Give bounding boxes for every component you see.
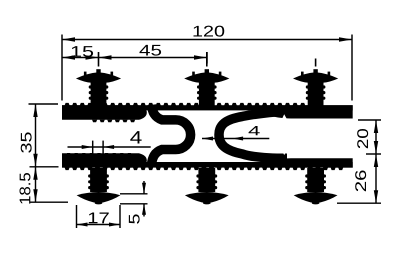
arrow 45 right <box>194 55 207 59</box>
label 4 left <box>130 131 141 143</box>
arrow 17 left <box>77 223 88 227</box>
label 26 <box>355 170 366 191</box>
ext tick bottom right <box>337 202 381 204</box>
dim 15/45 line <box>62 57 207 59</box>
dim 4 left line <box>68 146 151 148</box>
top-left flange block <box>62 105 147 120</box>
arrow 17 right <box>109 223 120 227</box>
arrow 4 left in <box>82 145 93 149</box>
arrow 26 down <box>374 190 378 203</box>
ext line left <box>61 35 63 101</box>
ext tick mid right <box>366 153 381 155</box>
bottom-left flange block <box>62 153 147 167</box>
dim 120 line <box>62 39 352 41</box>
label 45 <box>139 45 161 56</box>
ext line 17 right <box>119 205 121 228</box>
arrow 35 up <box>33 104 37 117</box>
tick 4 left b <box>102 141 104 154</box>
top-right flange block <box>262 105 353 118</box>
dim 26 line <box>375 154 377 203</box>
arrow 18.5 down <box>33 189 37 202</box>
screw bottom 3 <box>307 168 324 192</box>
dim 4 right line <box>202 138 269 140</box>
top-left block lower serrations <box>92 120 135 123</box>
arrow 20 down <box>374 141 378 154</box>
label 17 <box>89 213 109 224</box>
dim 5 line below <box>143 204 145 217</box>
screw bottom 1 <box>90 168 107 192</box>
arrow 15 left <box>62 55 75 59</box>
label 5 <box>129 214 140 223</box>
arrow 5 up <box>142 204 146 215</box>
tick 5 top <box>120 193 148 195</box>
dim 5 line above <box>143 181 145 194</box>
arrow 26 up <box>374 154 378 167</box>
label 15 <box>72 46 93 57</box>
bottom-left block upper serrations <box>66 153 132 156</box>
junction notch top-right <box>277 114 291 129</box>
ext tick bottom left <box>30 201 68 203</box>
arrow 45 left <box>99 55 112 59</box>
label 18.5 <box>19 173 30 204</box>
arrow 4 left out <box>103 145 114 149</box>
ext tick top left <box>29 103 59 105</box>
arrow 4 right inner <box>232 137 243 141</box>
top plate serrations <box>65 103 321 106</box>
arrow 18.5 up <box>33 167 37 180</box>
tick at 45 right <box>206 52 208 64</box>
screw bottom 2 <box>198 168 215 192</box>
ext tick top right <box>358 119 381 121</box>
dim 35 line <box>35 104 37 167</box>
arrow 35 down <box>33 154 37 167</box>
screw top 3 <box>315 59 317 67</box>
screw top 1 <box>98 52 100 67</box>
label 4 right <box>249 126 260 135</box>
right membrane loop <box>219 111 287 158</box>
arrow 20 up <box>374 120 378 133</box>
bottom-right flange block <box>262 158 353 167</box>
dim 18.5 line <box>35 167 37 202</box>
label 120 <box>194 26 225 37</box>
arrow 120 right <box>339 37 352 41</box>
arrow 4 right outer <box>202 137 213 141</box>
arrow 120 left <box>62 37 75 41</box>
ext tick mid left <box>30 166 59 168</box>
junction notch bottom-right <box>277 140 291 155</box>
ext line right <box>351 35 353 101</box>
label 20 <box>357 129 368 148</box>
ext line 17 left <box>76 205 78 228</box>
dim 20 line <box>375 120 377 154</box>
left membrane loop <box>152 105 191 165</box>
tick 4 left a <box>92 141 94 154</box>
tick 5 bottom <box>120 203 148 205</box>
screw top 2 <box>206 52 208 67</box>
bottom plate serrations <box>65 167 344 170</box>
label 35 <box>21 132 32 152</box>
bottom cover plate <box>62 162 353 168</box>
top cover plate <box>62 105 353 110</box>
arrow 15 right <box>86 55 99 59</box>
arrow 5 down <box>142 183 146 194</box>
dim 17 line <box>77 224 121 226</box>
